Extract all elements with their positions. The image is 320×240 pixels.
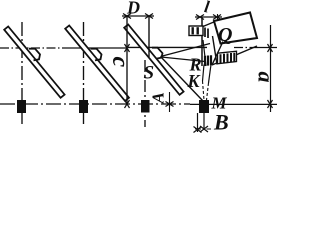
hatch bars right of slit bbox=[205, 28, 208, 39]
dashed ray M to focus bbox=[209, 65, 212, 84]
beam S to M bbox=[161, 57, 204, 102]
svg-text:K: K bbox=[187, 71, 202, 91]
rider square M (detector) bbox=[199, 100, 209, 113]
svg-text:D: D bbox=[126, 0, 140, 18]
D arrow left bbox=[123, 14, 131, 19]
slit box bbox=[189, 26, 203, 36]
B left arrow bbox=[194, 127, 202, 133]
axis right solid extension with a-dim bbox=[258, 47, 277, 49]
extension line x149 (D right, down to S) bbox=[148, 16, 150, 57]
svg-text:S: S bbox=[144, 63, 155, 84]
plate 1 (tilted bar) bbox=[4, 27, 64, 98]
stand axis 1 (vertical dash-dot) bbox=[21, 22, 23, 127]
dashed ray M to strip left bbox=[203, 65, 205, 82]
svg-text:A: A bbox=[149, 92, 168, 104]
a arrow top bbox=[268, 44, 273, 52]
axis right dash-dot segment bbox=[234, 47, 258, 49]
rider square 3 bbox=[141, 100, 150, 113]
beam slit to focus bbox=[203, 40, 206, 66]
strip R bars bbox=[205, 55, 211, 66]
strip R outline bbox=[218, 51, 237, 64]
slit tube vertical bbox=[201, 17, 203, 66]
plate 1 holder step bbox=[29, 49, 40, 61]
B arrow bbox=[200, 126, 208, 132]
svg-text:a: a bbox=[254, 72, 279, 83]
beam S to box bbox=[161, 44, 211, 57]
a dim vertical line bbox=[270, 25, 272, 112]
stand axis 3 (vertical dash-dot, lower part) bbox=[144, 60, 146, 127]
svg-text:c: c bbox=[107, 57, 133, 68]
A dim extension line bbox=[169, 92, 171, 112]
stand axis 2 (vertical dash-dot) bbox=[83, 22, 85, 127]
B left extension vertical bbox=[197, 113, 199, 132]
l arrow right bbox=[213, 15, 221, 20]
rider square 2 bbox=[79, 100, 88, 113]
beam box corner to focus bbox=[212, 36, 223, 65]
plate 3 holder step bbox=[152, 48, 163, 59]
slit box dark bar bbox=[192, 27, 194, 34]
axis solid segment to instrument bbox=[128, 46, 207, 48]
bench rail (bottom dash-dot line) bbox=[0, 103, 190, 105]
svg-text:B: B bbox=[213, 110, 229, 135]
a arrow bottom bbox=[268, 100, 273, 108]
c arrow at axis bbox=[125, 44, 130, 52]
extension x218 to box corner bbox=[217, 14, 219, 22]
plate 2 holder step bbox=[91, 49, 102, 61]
beam S to strip R left bbox=[161, 57, 205, 62]
c arrow at rail bbox=[125, 100, 130, 108]
extension line x127 (c dimension line) bbox=[126, 16, 128, 104]
B pointer vertical below M bbox=[203, 113, 205, 129]
dimension l line bbox=[195, 16, 222, 18]
optical axis (horizontal dash-dot, left part) bbox=[0, 47, 64, 49]
plate 3 (tilted bar) bbox=[124, 25, 183, 95]
l arrow left bbox=[196, 15, 204, 20]
A arrow bbox=[166, 102, 174, 107]
rider square 1 bbox=[17, 100, 26, 113]
svg-text:Q: Q bbox=[218, 24, 232, 46]
D arrow right bbox=[145, 14, 153, 19]
link slit to box corner bbox=[203, 22, 215, 27]
box Q (tilted housing) bbox=[214, 13, 257, 44]
dimension D line bbox=[122, 15, 154, 17]
B baseline dash-dot bbox=[195, 128, 211, 130]
beam focus to box BR bbox=[212, 46, 257, 65]
rail solid right part bbox=[190, 103, 277, 105]
plate 2 (tilted bar) bbox=[65, 26, 129, 101]
